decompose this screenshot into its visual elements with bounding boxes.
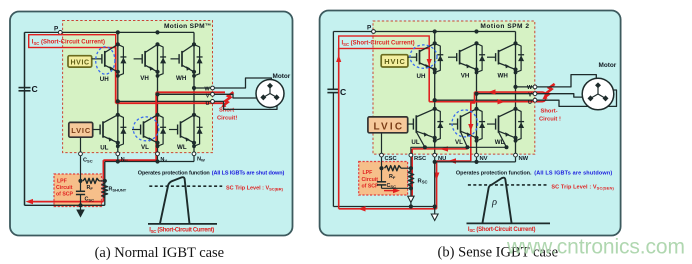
svg-text:ISC (Short-Circuit Current): ISC (Short-Circuit Current) [468,227,536,233]
svg-text:WL: WL [177,144,187,151]
svg-text:NW: NW [519,156,529,162]
svg-text:RSHUNT: RSHUNT [109,187,127,193]
svg-text:U: U [206,101,210,107]
diode D-UL(b) [435,109,444,141]
red path: along U line [116,102,223,104]
svg-text:NU: NU [438,156,446,162]
transistor VH(b) [448,41,479,79]
transistor UL(a) [93,113,120,152]
LVIC IC (a) [69,122,93,137]
ground below return (b) [431,207,438,221]
svg-text:VH: VH [140,75,149,82]
red path: return up the left side (b) [338,48,340,209]
junction: U line / leg U (b, redrawn) [433,98,437,102]
wire: U phase line (b) [435,99,535,101]
red path: along N bus left (b) [437,160,471,162]
pin NV (b) [475,153,479,157]
Motion SPM module box (a) [63,21,213,153]
svg-text:V: V [206,94,210,100]
capacitor C [19,32,38,205]
red short-circuit current path (a): top segment + I_SC label box [29,35,116,48]
wire: leg W vertical (b) [515,32,517,154]
svg-text:Circuit: Circuit [362,177,379,183]
junction: rail-leg V (b) [474,29,478,33]
wire: leg U vertical [117,32,119,153]
pin N_W (a) [192,152,196,156]
waveform I_SC pulse (a) [160,177,190,224]
wire: N bus (b) [435,161,516,163]
stub NW to bus (b) [515,157,517,162]
wire: W phase line (b) [516,86,536,88]
svg-text:C: C [340,87,346,97]
svg-text:SC Trip Level : VSC(BR): SC Trip Level : VSC(BR) [226,186,284,192]
ground (a) [77,205,84,216]
wire: N bus [105,161,194,163]
svg-text:VL: VL [141,144,149,151]
red path: return with arrow [33,201,103,203]
red I_SC label box (b) [339,36,430,49]
svg-text:(a) Normal IGBT case: (a) Normal IGBT case [95,245,225,261]
svg-text:LVIC: LVIC [71,126,91,135]
diode D-WH(b) [516,43,525,72]
pin RSC (b) [409,153,413,157]
highlight ellipse around VL (b) [452,110,478,137]
wire: leg U vertical (b) [434,32,436,154]
wire: W phase line [194,87,213,89]
panel (b) background [320,11,621,236]
svg-text:WH: WH [498,73,509,80]
transistor UH(a) [92,42,120,83]
wire: P rail inside module [62,31,194,33]
Motion SPM 2 module box (b) [373,21,535,154]
svg-text:VL: VL [455,139,463,146]
red path: along N bus left [103,159,156,161]
waveform baseline (b) [467,222,551,224]
svg-text:NW: NW [197,157,205,163]
red path: down through VL (b) [471,92,475,161]
svg-text:(All LS IGBTs are shutdown): (All LS IGBTs are shutdown) [534,171,612,177]
stub N_V to bus + junction [157,156,159,162]
op-amp/IC HVIC (a) [68,56,92,67]
wire: sense emitter line to RSC [411,147,507,153]
transistor VL(b) [449,107,479,150]
svg-text:V: V [528,93,532,99]
red path: along U line (b) [429,101,542,103]
svg-text:Motor: Motor [599,62,617,69]
diode D-VL(a) [158,115,167,146]
stub NU to bus + junction (b) [434,157,436,162]
pin N_U (a) [116,152,120,156]
svg-text:VH: VH [461,73,470,80]
diode D-UH(b) [435,43,444,72]
diode D-UL(a) [118,115,127,146]
svg-text:LPF: LPF [363,170,373,176]
wire: RSC pin down [410,157,412,206]
svg-text:Circuit: Circuit [56,185,73,191]
direction arrow on RSC line (b) [408,196,414,202]
capacitor C_SC (b) [377,168,411,189]
wire: bottom return (b) [333,206,434,208]
diode D-WL(a) [194,115,203,146]
short-circuit lightning bolt (a) [221,91,233,109]
svg-text:NV: NV [480,156,488,162]
resistor R_F [83,178,105,191]
svg-text:U: U [528,100,532,106]
pin N_V (a) [156,152,160,156]
wire: V phase to motor [215,94,258,98]
wire: CSC pin into LPF [381,157,383,168]
svg-text:Short-: Short- [541,109,558,115]
wire: DC+ from capacitor to P pin (b) [333,31,373,33]
red path: down through UH (b) [428,49,430,102]
svg-text:Circuit!: Circuit! [217,116,237,122]
pin NW (b) [514,153,518,157]
svg-text:P: P [54,26,59,33]
LPF circuit of SCP box (b) [359,162,408,196]
pins W V U on right edge (a) [211,86,215,90]
pin CSC (a) + wire from LVIC [80,137,82,152]
red path: wrap at motor pins (b) [543,92,546,102]
capacitor C (b) [327,87,346,97]
diode D-VL(b) [477,109,486,141]
wire: DC+ from capacitor to P pin [25,31,61,33]
diode D-VH(a) [158,44,167,76]
pin CSC (b) + wire from LVIC [381,133,383,154]
svg-text:CSC: CSC [85,197,95,203]
svg-text:ISC (Short-Circuit Current): ISC (Short-Circuit Current) [149,228,214,234]
junction: rail-leg V [155,30,159,34]
capacitor C_SC (filter) [76,191,94,202]
svg-text:HVIC: HVIC [384,57,405,66]
red path: sense branch down R_SC (b) [411,149,413,196]
svg-text:Motion SPM 2: Motion SPM 2 [480,23,529,30]
pin NU (b) [433,153,437,157]
resistor R_SHUNT [102,179,127,198]
panel (a) background [10,12,293,236]
svg-text:P: P [367,25,372,32]
wire: U phase to motor [215,101,278,109]
red path: sense branch along sense line (b) [412,148,467,150]
wire: V phase to motor (b) [537,94,583,97]
transistor VH(a) [134,42,160,82]
svg-text:ISC (Short-Circuit Current): ISC (Short-Circuit Current) [32,40,105,46]
svg-text:UL: UL [100,145,108,152]
wire: leg V vertical (b) [476,43,478,153]
wire: V phase line [158,93,213,95]
node: R_F junction [78,179,82,183]
diode D-VH(b) [477,43,486,72]
svg-text:RSC: RSC [418,179,428,185]
wire: bus down to return (b) [434,162,436,207]
svg-text:Operates protection function.: Operates protection function. [456,171,532,177]
resistor R_F (b) [385,166,411,180]
red path: down through UH [115,48,117,104]
LVIC IC (b) [368,117,408,133]
resistor R_SC [408,171,427,187]
red path: down to return (b) [436,161,438,209]
stub N_U to bus + junction [117,156,119,162]
transistor UH(b) [408,41,437,80]
svg-text:WL: WL [495,139,505,146]
svg-text:UH: UH [417,73,426,80]
highlight ellipse around VL (a) [133,117,159,141]
svg-text:of SCP: of SCP [56,191,74,197]
SC trip level dashed line (b) [468,184,548,186]
wire: C_SC pin down to LPF node [80,156,82,192]
wire: W phase to motor [215,78,272,88]
svg-text:Motion SPM™: Motion SPM™ [164,23,212,30]
svg-text:WH: WH [176,75,187,82]
svg-text:RSC: RSC [414,156,427,162]
svg-text:Operates protection function: Operates protection function [138,171,211,177]
svg-text:ISC (Short-Circuit Current): ISC (Short-Circuit Current) [342,41,415,47]
red arrow in LPF (b) [384,190,398,192]
junction: U line / leg U (redrawn) [116,99,120,103]
svg-text:CSC: CSC [387,183,397,189]
transistor WL(a) [169,113,196,151]
junction: V line / leg V (redrawn) [155,92,159,96]
svg-text:LPF: LPF [57,179,67,185]
stub N_W to bus [193,156,195,162]
red path: return bottom (b) [339,208,437,210]
pins W V U right edge (b) [533,85,537,89]
svg-text:CSC: CSC [83,158,93,164]
node P (pin) [54,26,62,35]
transistor VL(a) [132,113,160,151]
node: bottom junction [78,203,82,207]
motor (a) [256,80,284,108]
svg-text:HVIC: HVIC [71,59,90,66]
svg-text:UH: UH [100,76,109,83]
red path: down through VL [155,92,157,160]
red path: down through shunt [102,160,104,201]
svg-text:RF: RF [87,185,94,191]
short-circuit lightning bolt (b) [542,83,554,101]
svg-text:C: C [32,84,38,94]
transistor WL(b) [487,107,518,150]
svg-text:of SCP: of SCP [362,184,380,190]
wire: left DC bus vertical (b) [332,32,334,89]
red path: along V line back [156,91,225,93]
svg-text:SC Trip Level : VSC(SEN): SC Trip Level : VSC(SEN) [551,184,614,190]
svg-text:(All LS IGBTs are shut down): (All LS IGBTs are shut down) [212,171,285,177]
SC trip level dashed line (a) [149,185,222,187]
transistor UL(b) [408,107,437,150]
svg-text:UL: UL [411,139,419,146]
node P pin (b) [367,25,375,34]
svg-text:RF: RF [389,174,396,180]
HVIC IC (b) [381,55,408,67]
highlight ellipse around UH (a) [96,47,115,74]
waveform I_SC pulse (b) [482,178,511,224]
wire: U phase to motor (b) [537,90,617,106]
svg-text:Motor: Motor [273,73,291,80]
LPF circuit of SCP box (a) [54,174,102,207]
junction: rail-leg U [116,30,120,34]
wire: leg W vertical (from rail corner) [193,32,195,153]
transistor WH(b) [487,41,518,79]
transistor WH(a) [171,42,197,82]
svg-text:www.cntronics.com: www.cntronics.com [506,236,685,259]
wire: V phase line (b) [477,93,536,95]
stub NV to bus + junction (b) [476,157,478,162]
svg-text:Circuit !: Circuit ! [539,117,561,123]
wire: U phase line [118,100,213,102]
diode D-WH(a) [194,44,203,76]
junction: rail-leg U (b) [433,29,437,33]
svg-text:ρ: ρ [491,197,497,208]
wire: left DC bus vertical [24,32,26,205]
highlight ellipse around UH (b) [410,45,437,68]
wire: leg V vertical [157,44,159,153]
diode D-WL(b) [516,109,525,141]
svg-text:Short: Short [219,108,234,114]
svg-text:CSC: CSC [385,156,398,162]
wire: P rail inside module (b) [376,31,516,33]
diode D-UH(a) [118,44,127,76]
junction: V line / leg V (b, redrawn) [474,92,478,96]
motor (b) [582,78,614,110]
wire: bottom return to capacitor [25,204,105,206]
wire: W phase to motor (b) [537,75,596,87]
waveform baseline (a) [148,223,217,225]
red path: along V line back (b) [475,91,543,93]
